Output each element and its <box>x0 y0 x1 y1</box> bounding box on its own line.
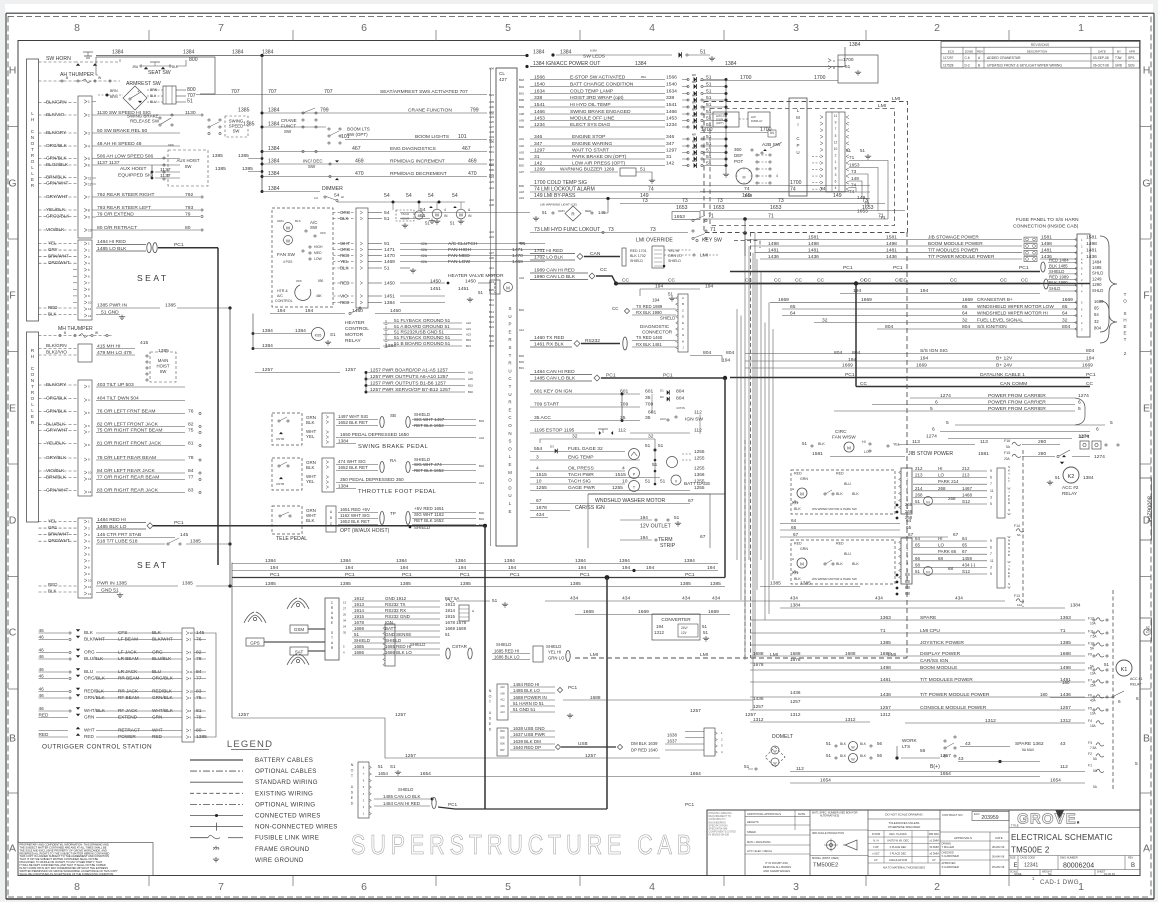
svg-text:194: 194 <box>277 308 285 314</box>
PC1 cable down from seat1 <box>217 248 219 565</box>
skylight wiper dashed box <box>791 470 895 514</box>
svg-text:OPTIONAL CABLES: OPTIONAL CABLES <box>255 768 317 775</box>
svg-text:9: 9 <box>990 469 992 473</box>
svg-text:ENGINE STOP: ENGINE STOP <box>572 134 606 140</box>
svg-text:194: 194 <box>722 358 730 364</box>
svg-text:1384: 1384 <box>262 343 273 349</box>
svg-text:76: 76 <box>188 409 194 415</box>
svg-text:1581: 1581 <box>1086 234 1097 240</box>
svg-text:YEL/BLK: YEL/BLK <box>46 207 66 212</box>
svg-text:T MILLER: T MILLER <box>942 845 955 849</box>
svg-text:71: 71 <box>880 628 886 634</box>
svg-text:68: 68 <box>905 572 910 577</box>
svg-text:A46: A46 <box>489 198 494 202</box>
svg-text:1484 CAN HI RED: 1484 CAN HI RED <box>383 801 421 806</box>
svg-text:HOIST: HOIST <box>157 364 170 369</box>
svg-text:B: B <box>9 733 16 745</box>
svg-text:FAN LOW: FAN LOW <box>448 259 470 265</box>
svg-text:5: 5 <box>1078 406 1081 412</box>
svg-text:A09: A09 <box>519 119 524 123</box>
svg-text:415: 415 <box>140 340 148 346</box>
svg-text:MR: MR <box>692 101 696 105</box>
svg-text:12341: 12341 <box>1024 863 1038 869</box>
svg-text:3: 3 <box>793 22 799 34</box>
svg-text:W: W <box>851 746 855 750</box>
svg-text:1385: 1385 <box>710 581 721 587</box>
svg-text:A21: A21 <box>466 327 471 331</box>
svg-text:1639 BLK DM: 1639 BLK DM <box>513 739 541 744</box>
skylight wiper connector <box>901 468 912 514</box>
svg-text:BLK: BLK <box>794 507 801 511</box>
svg-text:BLK: BLK <box>836 492 843 496</box>
svg-text:82: 82 <box>188 422 194 428</box>
outrigger right bracket <box>206 633 216 737</box>
svg-text:73: 73 <box>650 227 656 233</box>
svg-text:7: 7 <box>88 195 90 199</box>
svg-text:67: 67 <box>908 532 914 537</box>
svg-text:51 FLYBACK GROUND 51: 51 FLYBACK GROUND 51 <box>394 335 451 340</box>
svg-text:434: 434 <box>570 596 578 602</box>
svg-text:GRN/WHT: GRN/WHT <box>46 488 69 493</box>
svg-text:HEATER: HEATER <box>345 320 365 326</box>
svg-text:1385: 1385 <box>158 348 169 354</box>
lmi dashed trunk <box>750 233 752 659</box>
svg-text:3: 3 <box>835 173 837 177</box>
svg-text:1384: 1384 <box>619 558 630 564</box>
svg-text:WS WIPER MOTOR & PARK SW: WS WIPER MOTOR & PARK SW <box>812 507 857 511</box>
svg-text:1450: 1450 <box>430 279 441 285</box>
svg-text:804: 804 <box>885 324 893 330</box>
svg-text:RED: RED <box>152 734 163 739</box>
not used row 1484 <box>510 686 555 688</box>
svg-text:25A: 25A <box>1090 684 1097 688</box>
svg-text:ECO: ECO <box>948 49 955 53</box>
gauge W IN 2 <box>456 209 466 219</box>
svg-text:YEL: YEL <box>48 241 57 246</box>
svg-text:O: O <box>351 769 354 773</box>
svg-text:DP RED 1640: DP RED 1640 <box>631 748 658 753</box>
svg-text:34: 34 <box>343 618 347 622</box>
lmi dashed bus bottom <box>575 657 907 659</box>
svg-text:COLD TEMP LAMP: COLD TEMP LAMP <box>570 88 614 94</box>
outrigger zigzag left <box>33 632 47 634</box>
svg-text:BLK/GRY: BLK/GRY <box>46 382 67 387</box>
not used row 51 <box>510 705 555 707</box>
svg-text:CONNECTED WIRES: CONNECTED WIRES <box>255 813 321 820</box>
svg-text:31: 31 <box>534 154 540 160</box>
svg-text:THROTTLE FOOT PEDAL: THROTTLE FOOT PEDAL <box>358 489 437 495</box>
svg-text:BLK/GRN: BLK/GRN <box>46 343 67 348</box>
svg-text:7: 7 <box>835 127 837 131</box>
svg-text:GRD: GRD <box>1115 63 1123 67</box>
svg-text:32: 32 <box>962 317 968 323</box>
svg-text:DWG NUMBER: DWG NUMBER <box>1060 857 1078 860</box>
ac sw circles <box>284 223 293 232</box>
svg-text:WHT/BLK: WHT/BLK <box>84 708 106 713</box>
svg-text:1654: 1654 <box>420 771 431 777</box>
svg-text:434: 434 <box>875 596 883 601</box>
svg-text:F8: F8 <box>1088 667 1092 671</box>
svg-text:RED: RED <box>836 472 844 476</box>
svg-text:1470: 1470 <box>512 253 523 259</box>
svg-text:A22: A22 <box>489 110 494 114</box>
svg-text:434: 434 <box>955 596 963 601</box>
svg-text:54: 54 <box>384 210 390 216</box>
svg-text:799: 799 <box>320 108 329 114</box>
svg-text:RS232 GND: RS232 GND <box>385 614 411 619</box>
svg-text:20A: 20A <box>1004 457 1011 461</box>
svg-text:OPT (W/AUX HOIST): OPT (W/AUX HOIST) <box>340 528 390 534</box>
crane star connector mid <box>385 624 395 666</box>
svg-text:64: 64 <box>1094 312 1099 317</box>
svg-text:GND 1912: GND 1912 <box>385 596 407 601</box>
svg-text:YEL HI: YEL HI <box>548 650 561 655</box>
svg-text:F17 5A: F17 5A <box>445 596 459 601</box>
svg-text:84: 84 <box>188 468 194 474</box>
svg-text:1686 BLK LO: 1686 BLK LO <box>385 650 412 655</box>
svg-text:STRIP: STRIP <box>660 543 676 549</box>
svg-text:CC: CC <box>950 278 958 284</box>
svg-text:5: 5 <box>1110 420 1113 426</box>
svg-text:194: 194 <box>508 565 516 571</box>
svg-text:RED 1484: RED 1484 <box>1049 258 1069 263</box>
svg-text:46: 46 <box>39 693 45 698</box>
svg-text:194: 194 <box>853 288 861 294</box>
svg-text:54: 54 <box>452 193 458 199</box>
svg-text:A11: A11 <box>489 273 494 277</box>
svg-text:10A: 10A <box>1090 712 1097 716</box>
svg-text:1257: 1257 <box>395 712 406 718</box>
svg-text:WHT: WHT <box>152 728 163 733</box>
svg-text:SHIELD: SHIELD <box>414 525 431 530</box>
svg-text:B40: B40 <box>468 390 473 394</box>
svg-text:S GARDINER: S GARDINER <box>942 865 959 869</box>
svg-text:1540: 1540 <box>534 81 545 87</box>
svg-text:MA: MA <box>692 140 696 144</box>
svg-text:PC1: PC1 <box>685 802 695 807</box>
svg-text:CAR/SS IGN: CAR/SS IGN <box>575 505 605 511</box>
CC bus heavy <box>616 283 1090 285</box>
svg-text:1497 WHT SIG: 1497 WHT SIG <box>338 414 369 419</box>
svg-text:GRN: GRN <box>800 547 808 551</box>
svg-text:ORG: ORG <box>84 650 95 655</box>
svg-text:1669: 1669 <box>1094 299 1104 304</box>
svg-text:4: 4 <box>649 881 655 893</box>
svg-text:149: 149 <box>833 193 842 199</box>
svg-text:SEAT SW: SEAT SW <box>148 70 171 76</box>
svg-text:CONTRACT NO.: CONTRACT NO. <box>942 813 963 817</box>
svg-text:RELEASE SW: RELEASE SW <box>130 119 160 124</box>
svg-text:±0.3MM: ±0.3MM <box>929 845 938 849</box>
svg-text:1498: 1498 <box>1041 241 1052 247</box>
svg-text:HIGH: HIGH <box>314 245 323 249</box>
svg-text:346: 346 <box>534 134 542 140</box>
svg-text:B18: B18 <box>519 78 524 82</box>
svg-text:1385: 1385 <box>243 122 255 128</box>
lmi dashed corner override <box>734 241 760 249</box>
svg-text:1363: 1363 <box>1060 615 1071 621</box>
svg-text:MA: MA <box>692 159 696 163</box>
svg-text:U: U <box>508 392 511 397</box>
svg-text:RX BLK 1461: RX BLK 1461 <box>636 342 662 347</box>
svg-text:HEIGHTS: HEIGHTS <box>747 820 759 824</box>
svg-text:A32: A32 <box>489 230 494 234</box>
fuse row SPARE <box>750 619 1085 621</box>
svg-text:BLK: BLK <box>172 65 179 69</box>
svg-text:ORG: ORG <box>340 247 351 252</box>
svg-text:DATE: DATE <box>798 812 805 816</box>
svg-text:1467: 1467 <box>962 486 972 491</box>
svg-text:B20: B20 <box>489 163 494 167</box>
svg-text:1498: 1498 <box>768 241 779 247</box>
svg-text:B04: B04 <box>519 85 524 89</box>
svg-text:SPEED: SPEED <box>747 830 756 834</box>
svg-text:B05: B05 <box>500 736 505 739</box>
svg-text:1700: 1700 <box>843 57 854 62</box>
svg-text:1470: 1470 <box>384 253 395 259</box>
junction bus for 51s <box>725 80 727 173</box>
svg-text:A34: A34 <box>489 135 494 139</box>
LH controller box <box>27 59 39 321</box>
svg-text:U: U <box>796 150 799 155</box>
svg-text:194: 194 <box>920 356 928 362</box>
svg-text:A07: A07 <box>519 170 524 174</box>
svg-text:RED: RED <box>794 542 802 546</box>
svg-text:64: 64 <box>962 310 968 316</box>
svg-text:F4: F4 <box>1088 719 1092 723</box>
svg-text:1654: 1654 <box>820 778 831 784</box>
svg-text:1436: 1436 <box>768 254 779 260</box>
svg-text:1515: 1515 <box>615 472 626 478</box>
svg-text:194: 194 <box>622 565 630 571</box>
svg-text:180: 180 <box>1040 692 1048 697</box>
svg-text:K3: K3 <box>926 570 930 574</box>
svg-text:S/S IGNITION: S/S IGNITION <box>977 324 1007 329</box>
svg-text:SHIELD: SHIELD <box>630 259 643 263</box>
svg-text:A02: A02 <box>519 144 524 148</box>
swing speed sw <box>225 116 248 137</box>
svg-text:YEL/BLK: YEL/BLK <box>46 441 66 446</box>
svg-text:804: 804 <box>703 350 711 356</box>
svg-text:46K: 46K <box>316 294 323 298</box>
svg-text:GRY/WHT: GRY/WHT <box>46 428 68 433</box>
svg-text:74: 74 <box>820 186 826 192</box>
svg-text:73 LMI HYD FUNC LOKOUT: 73 LMI HYD FUNC LOKOUT <box>534 227 601 233</box>
svg-text:1: 1 <box>835 160 837 164</box>
svg-text:MATL / MACHINING: MATL / MACHINING <box>747 840 771 844</box>
svg-text:1481: 1481 <box>808 248 819 254</box>
svg-text:9: 9 <box>88 215 90 219</box>
svg-text:F6: F6 <box>1088 694 1092 698</box>
swing brake pedal connector <box>322 413 334 447</box>
svg-text:145 CTR FRT STAB: 145 CTR FRT STAB <box>97 532 142 538</box>
svg-text:65: 65 <box>962 543 967 548</box>
svg-text:F: F <box>682 327 684 331</box>
svg-text:T: T <box>1124 337 1127 342</box>
svg-text:54: 54 <box>428 193 434 199</box>
fuse col dashed boundary <box>1112 590 1114 790</box>
svg-text:A10: A10 <box>500 686 505 689</box>
svg-text:51: 51 <box>478 290 483 295</box>
not used row 1688 <box>510 699 555 701</box>
svg-text:TX RED 1460: TX RED 1460 <box>636 335 663 340</box>
svg-text:D: D <box>351 802 354 806</box>
svg-text:1915: 1915 <box>445 614 455 619</box>
fuse panel connector right <box>1077 234 1090 337</box>
svg-text:PC1: PC1 <box>843 265 853 271</box>
crane star row SHIELD <box>352 642 440 644</box>
svg-text:1384: 1384 <box>268 122 280 128</box>
svg-text:1274: 1274 <box>1094 454 1105 460</box>
svg-text:1450: 1450 <box>390 308 401 314</box>
svg-text:PC1: PC1 <box>448 802 458 807</box>
svg-text:B07: B07 <box>500 749 505 752</box>
svg-text:BLK/VIO: BLK/VIO <box>46 112 65 117</box>
svg-text:10: 10 <box>88 471 92 475</box>
svg-text:51: 51 <box>706 74 712 80</box>
signal row E-STOP SW ACTIVATED <box>530 79 665 81</box>
svg-text:B34: B34 <box>479 517 484 521</box>
svg-text:REVISIONS: REVISIONS <box>1031 43 1050 47</box>
svg-text:73: 73 <box>682 198 688 204</box>
svg-text:51: 51 <box>706 141 712 147</box>
svg-text:54: 54 <box>420 207 426 213</box>
svg-text:GRN/BLK: GRN/BLK <box>84 695 105 700</box>
svg-text:1384: 1384 <box>384 300 395 306</box>
svg-text:RED/BLK: RED/BLK <box>152 689 173 694</box>
svg-text:OFF: OFF <box>296 279 302 283</box>
svg-text:35: 35 <box>645 415 651 421</box>
signal row LOW AIR PRESS (OPT) <box>530 165 665 167</box>
svg-text:804: 804 <box>1094 326 1102 331</box>
svg-text:1312: 1312 <box>790 712 801 717</box>
svg-text:F5: F5 <box>1088 707 1092 711</box>
svg-text:WARNING BUZZER 1269: WARNING BUZZER 1269 <box>560 167 615 172</box>
svg-text:1678: 1678 <box>536 505 547 511</box>
svg-text:SW: SW <box>308 164 316 169</box>
svg-text:+5V RED 1651: +5V RED 1651 <box>414 506 444 511</box>
svg-text:1384: 1384 <box>338 439 349 444</box>
svg-text:1436: 1436 <box>880 692 891 698</box>
svg-text:WS WIPER MOTOR & PARK SW: WS WIPER MOTOR & PARK SW <box>812 577 857 581</box>
svg-text:51: 51 <box>384 216 390 222</box>
svg-text:L: L <box>31 402 34 407</box>
svg-text:BLK: BLK <box>852 492 859 496</box>
RH controller box <box>27 332 39 522</box>
svg-text:SHIELD: SHIELD <box>354 638 371 643</box>
svg-text:ORG/BLK: ORG/BLK <box>84 676 106 681</box>
svg-text:1255: 1255 <box>536 485 547 491</box>
svg-text:117528: 117528 <box>943 63 954 67</box>
svg-text:5: 5 <box>505 881 511 893</box>
svg-text:HOIST 3RD WRAP (opt): HOIST 3RD WRAP (opt) <box>570 95 624 101</box>
svg-text:SHIELD: SHIELD <box>496 642 511 647</box>
svg-text:L: L <box>31 171 34 176</box>
svg-text:B: B <box>682 302 684 306</box>
heavy trunk x725 up <box>724 378 726 578</box>
svg-text:73: 73 <box>717 198 723 204</box>
svg-text:RED 1989: RED 1989 <box>1049 275 1069 280</box>
svg-text:EQUIPPED SIG: EQUIPPED SIG <box>118 173 153 179</box>
svg-text:71: 71 <box>880 215 886 221</box>
svg-text:1688: 1688 <box>753 651 764 656</box>
svg-text:G: G <box>8 178 16 190</box>
svg-text:8: 8 <box>88 208 90 212</box>
svg-text:1638 USB GND: 1638 USB GND <box>513 726 545 731</box>
svg-text:5: 5 <box>505 22 511 34</box>
svg-text:6: 6 <box>1136 696 1139 701</box>
svg-text:1312: 1312 <box>880 712 891 717</box>
svg-text:B05: B05 <box>489 315 494 319</box>
svg-text:E: E <box>31 414 34 419</box>
svg-text:WINDSHIELD WIPER MOTOR LOW: WINDSHIELD WIPER MOTOR LOW <box>977 304 1054 309</box>
svg-text:1481: 1481 <box>886 248 897 254</box>
svg-text:5: 5 <box>990 502 992 506</box>
svg-text:1640 RED DP: 1640 RED DP <box>513 745 541 750</box>
svg-text:ADDED CRANESTAR.: ADDED CRANESTAR. <box>987 56 1021 60</box>
svg-text:LMI WARNING LIGHT (CE): LMI WARNING LIGHT (CE) <box>540 203 577 207</box>
svg-text:BLK/WHT: BLK/WHT <box>152 637 173 642</box>
svg-text:1384: 1384 <box>265 558 276 564</box>
dashed vertical fuse panel boundary <box>1022 450 1024 607</box>
svg-text:7.5A: 7.5A <box>1090 635 1097 639</box>
svg-text:GRN: GRN <box>152 715 162 720</box>
svg-text:T: T <box>31 384 34 389</box>
svg-text:1637: 1637 <box>667 739 677 744</box>
svg-text:SHIELD: SHIELD <box>668 259 681 263</box>
svg-text:1581: 1581 <box>812 451 823 457</box>
svg-text:1466: 1466 <box>534 109 545 115</box>
svg-text:65: 65 <box>1094 306 1099 311</box>
svg-text:1385: 1385 <box>680 581 691 587</box>
svg-text:1498: 1498 <box>808 241 819 247</box>
svg-text:W: W <box>851 758 855 762</box>
svg-text:B31: B31 <box>519 366 524 370</box>
svg-text:C-6: C-6 <box>965 56 970 60</box>
svg-text:T: T <box>331 636 333 640</box>
svg-text:56: 56 <box>877 741 882 746</box>
svg-text:51: 51 <box>645 443 651 448</box>
svg-text:M: M <box>743 176 746 180</box>
crane star row 1669 <box>352 630 440 632</box>
svg-text:O: O <box>31 396 35 401</box>
crane star row 1686 <box>352 654 440 656</box>
svg-text:1385: 1385 <box>340 581 351 587</box>
svg-text:212: 212 <box>915 466 923 471</box>
svg-text:13: 13 <box>343 600 347 604</box>
svg-text:LOW: LOW <box>314 257 323 261</box>
svg-text:194: 194 <box>848 357 856 363</box>
svg-text:H: H <box>31 354 34 359</box>
svg-text:1384: 1384 <box>268 108 280 114</box>
svg-text:S/S IGN SIG: S/S IGN SIG <box>920 348 948 354</box>
svg-text:BLU: BLU <box>152 669 162 674</box>
svg-text:268: 268 <box>905 509 913 514</box>
svg-text:1385: 1385 <box>238 153 249 159</box>
to sheet 2 brace <box>1100 236 1117 332</box>
svg-text:56: 56 <box>920 748 926 753</box>
svg-text:1385: 1385 <box>880 640 891 646</box>
svg-text:O: O <box>508 423 512 428</box>
svg-text:M: M <box>800 562 804 567</box>
svg-text:51: 51 <box>915 569 920 574</box>
svg-text:RED: RED <box>48 305 58 310</box>
svg-text:213: 213 <box>962 473 970 478</box>
svg-text:T: T <box>509 353 512 358</box>
svg-text:JIB STOWAGE POWER: JIB STOWAGE POWER <box>928 234 979 239</box>
svg-text:T: T <box>509 384 512 389</box>
svg-text:A36: A36 <box>489 256 494 260</box>
